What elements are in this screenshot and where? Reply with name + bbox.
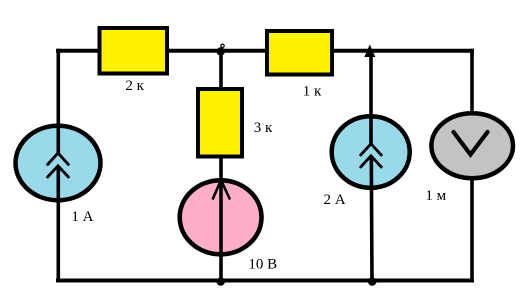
voltmeter P1 (1 m) circle <box>431 113 513 178</box>
svg-text:2 А: 2 А <box>323 192 345 208</box>
svg-text:1 к: 1 к <box>303 84 322 100</box>
wire left vertical upper part <box>56 49 60 154</box>
wire bottom horizontal <box>56 279 474 283</box>
svg-text:1 А: 1 А <box>71 209 93 225</box>
label 2 A <box>323 192 345 208</box>
label 3 k <box>254 120 273 136</box>
label 1 A <box>71 209 93 225</box>
voltmeter V mark <box>454 132 488 155</box>
wire middle branch (node A to node C) <box>219 51 223 282</box>
label 2 k <box>125 78 144 94</box>
node A junction dot <box>217 44 225 56</box>
I1 arrow double chevron <box>48 153 69 177</box>
svg-text:1 м: 1 м <box>425 188 446 204</box>
wire right vertical upper part <box>470 49 474 114</box>
voltage source V1 (10 B) circle <box>180 180 262 254</box>
svg-text:10 В: 10 В <box>248 257 277 273</box>
label 10 B <box>248 257 277 273</box>
node D junction dot <box>368 277 377 286</box>
current source I1 (1 A) circle <box>16 126 101 201</box>
wire right vertical lower part <box>470 178 474 283</box>
resistor R2 (1 k) <box>267 31 332 75</box>
wire branch of I2 lower part (chevron to node D) <box>369 156 373 282</box>
node C junction dot <box>216 277 225 286</box>
label 1 m <box>425 188 446 204</box>
resistor R1 (2 k) <box>100 28 168 74</box>
wire top horizontal <box>56 49 474 53</box>
label 1 k <box>303 84 322 100</box>
I2 arrow double chevron <box>361 144 382 167</box>
wire branch of I2 upper part (node B to fork) <box>369 55 373 144</box>
current source I2 (2 A) circle <box>332 116 410 188</box>
V1 arrowhead chevron <box>213 180 230 199</box>
svg-text:3 к: 3 к <box>254 120 273 136</box>
node B arrowhead of I2 branch <box>364 45 375 58</box>
resistor R3 (3 k) <box>198 89 242 157</box>
svg-text:2 к: 2 к <box>125 78 144 94</box>
wire left vertical lower part <box>56 166 60 283</box>
